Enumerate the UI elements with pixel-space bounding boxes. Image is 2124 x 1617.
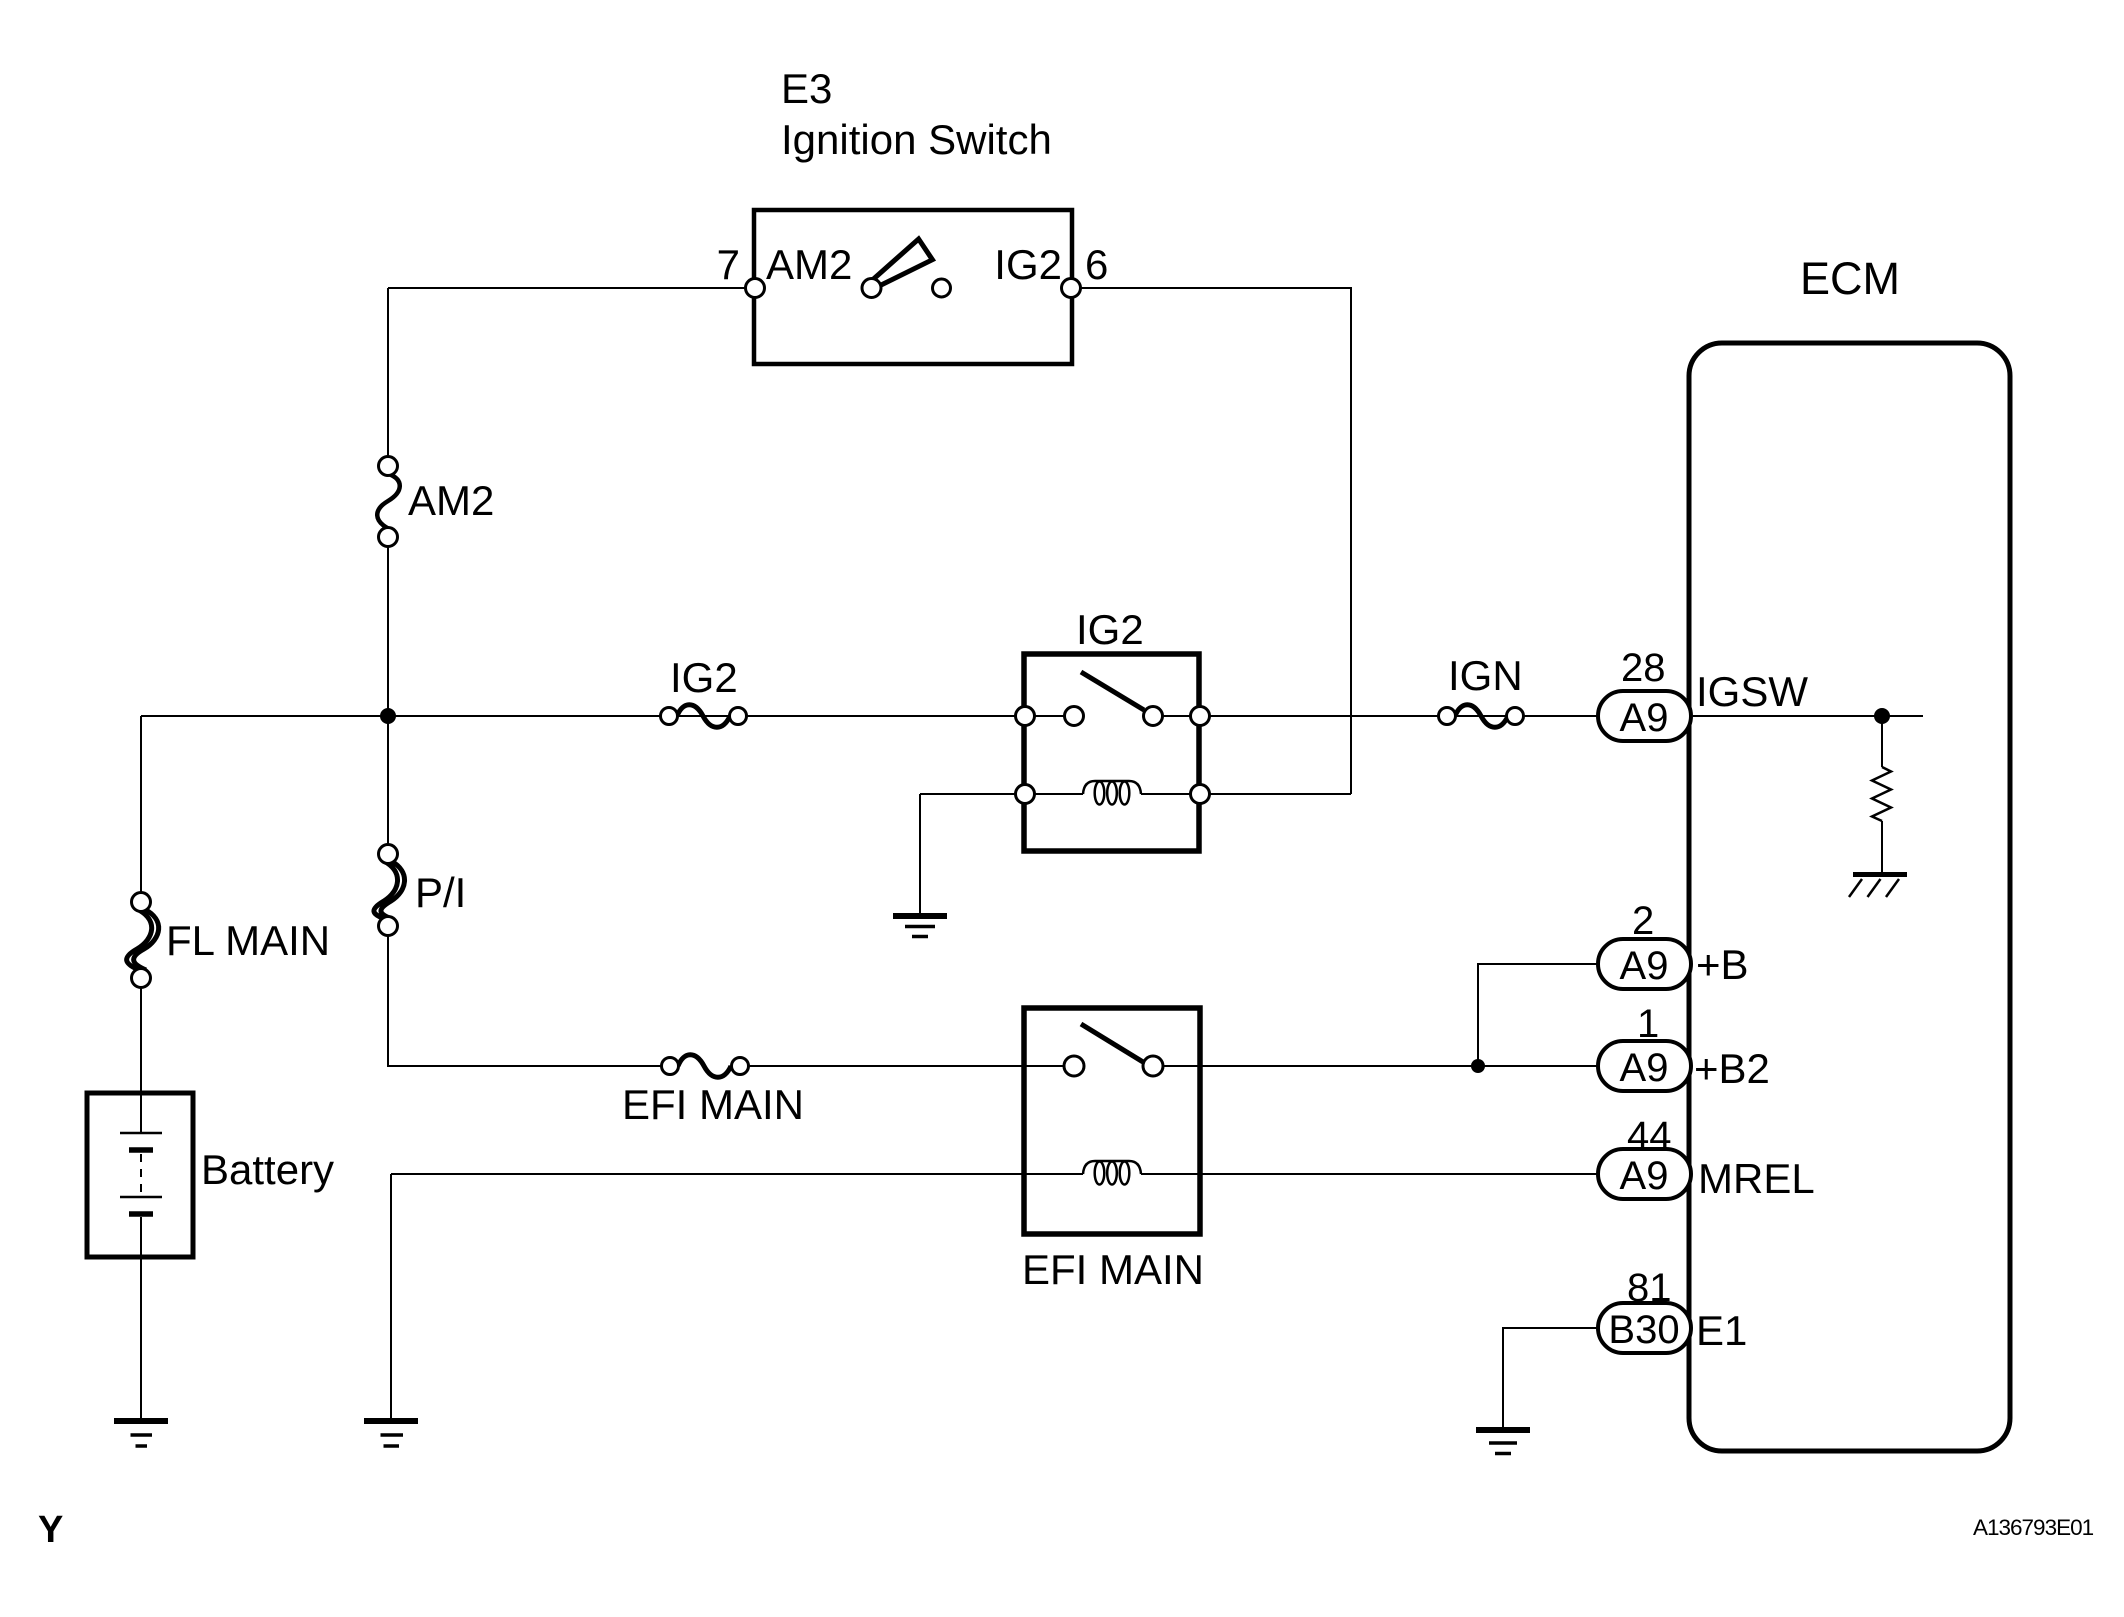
svg-text:Y: Y [38, 1509, 63, 1551]
svg-text:44: 44 [1627, 1114, 1672, 1158]
svg-text:EFI MAIN: EFI MAIN [622, 1081, 804, 1128]
svg-text:EFI MAIN: EFI MAIN [1022, 1246, 1204, 1293]
svg-text:IG2: IG2 [1076, 606, 1144, 653]
svg-text:IG2: IG2 [994, 241, 1062, 288]
svg-text:A136793E01: A136793E01 [1973, 1515, 2094, 1540]
svg-text:IGSW: IGSW [1696, 668, 1808, 715]
svg-text:E3: E3 [781, 65, 832, 112]
svg-text:MREL: MREL [1698, 1155, 1815, 1202]
svg-text:+B2: +B2 [1694, 1045, 1770, 1092]
svg-text:28: 28 [1621, 646, 1666, 690]
svg-text:AM2: AM2 [408, 477, 494, 524]
svg-text:AM2: AM2 [766, 241, 852, 288]
svg-text:Battery: Battery [201, 1146, 334, 1193]
svg-text:7: 7 [717, 241, 740, 288]
svg-text:IG2: IG2 [670, 654, 738, 701]
svg-text:81: 81 [1627, 1266, 1672, 1310]
svg-text:B30: B30 [1608, 1308, 1679, 1352]
svg-text:A9: A9 [1620, 1046, 1669, 1090]
svg-text:+B: +B [1696, 941, 1749, 988]
svg-text:A9: A9 [1620, 1154, 1669, 1198]
svg-text:Ignition Switch: Ignition Switch [781, 116, 1052, 163]
svg-text:A9: A9 [1620, 696, 1669, 740]
svg-text:1: 1 [1637, 1002, 1659, 1046]
svg-text:ECM: ECM [1800, 253, 1900, 304]
svg-text:IGN: IGN [1448, 652, 1523, 699]
svg-text:E1: E1 [1696, 1307, 1747, 1354]
svg-text:A9: A9 [1620, 944, 1669, 988]
svg-text:6: 6 [1085, 241, 1108, 288]
svg-text:P/I: P/I [415, 869, 466, 916]
svg-text:FL MAIN: FL MAIN [166, 917, 330, 964]
svg-text:2: 2 [1632, 899, 1654, 943]
